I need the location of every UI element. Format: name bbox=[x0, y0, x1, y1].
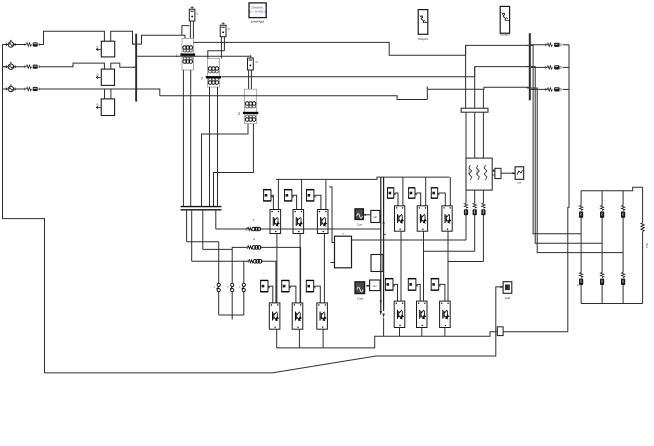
wire phase C long row bbox=[39, 89, 160, 96]
wire M2 jog to transformer2 bbox=[208, 51, 225, 59]
bus bar 2 bbox=[529, 33, 531, 100]
powergui block bbox=[249, 3, 266, 18]
wire junction riser x427 bbox=[426, 87, 428, 100]
igbt RL3 bbox=[440, 301, 451, 327]
wire row2 right bbox=[531, 66, 548, 68]
wire RL1 to rail bbox=[399, 328, 401, 337]
label arrow B3 bbox=[96, 106, 101, 108]
goto block Gd bbox=[503, 282, 512, 294]
svg-text:Scope3: Scope3 bbox=[500, 32, 510, 36]
wire load col3 lower bbox=[622, 285, 624, 304]
gate driver D3 bbox=[306, 190, 315, 201]
wire D2 gate bbox=[293, 195, 297, 209]
wire transformer1 secondary output bbox=[194, 42, 466, 55]
wire RL2 to rail bbox=[421, 328, 423, 337]
wire row3 drop bbox=[482, 89, 484, 108]
wire rail to U3 bbox=[325, 179, 327, 209]
svg-text:B: B bbox=[96, 45, 98, 49]
wire B1 output to bus1 bbox=[111, 31, 136, 44]
wire RU2 to RL2 bbox=[423, 231, 425, 301]
wire D11 gate bbox=[417, 284, 420, 301]
wire transformer2 output row bbox=[222, 76, 475, 78]
scope block Scope3 bbox=[500, 6, 509, 33]
wire load col2 mid bbox=[601, 218, 603, 273]
wire bar drop d bbox=[186, 210, 188, 242]
wire rail to U2 bbox=[301, 179, 303, 209]
gate driver D10 bbox=[385, 279, 394, 291]
wire merged row to bus2 bbox=[427, 87, 529, 89]
wire RL3 to rail bbox=[444, 328, 446, 337]
wire row2 to bus2 bbox=[475, 67, 529, 77]
wire load col1 mid bbox=[580, 218, 582, 273]
load element R2b bbox=[600, 273, 604, 286]
wire B2 output to bus1 bbox=[111, 63, 135, 69]
filter RL C bbox=[481, 203, 485, 215]
gate driver D6 bbox=[306, 280, 315, 291]
series RL branch right C bbox=[546, 87, 561, 91]
wire feeder drop B bbox=[531, 67, 602, 244]
wire RU1 to RL1 bbox=[400, 231, 402, 301]
wire Gd input arrow bbox=[501, 286, 504, 288]
series RL branch right A bbox=[546, 43, 561, 47]
wire bus1 feeder mid bbox=[137, 55, 249, 57]
wire D4 gate bbox=[269, 286, 273, 303]
function block F2 bbox=[370, 280, 381, 291]
svg-text:Gd2: Gd2 bbox=[505, 296, 511, 300]
wire L1 to rail bbox=[276, 329, 278, 348]
wire right branch bottom bbox=[642, 232, 644, 304]
wire load col1 upper bbox=[580, 191, 582, 206]
wire D5 gate bbox=[290, 286, 296, 303]
svg-text:Vabc: Vabc bbox=[468, 169, 471, 175]
wire D8 gate bbox=[416, 193, 421, 206]
label arrow B2 bbox=[96, 76, 101, 78]
three-phase measurement block bbox=[466, 158, 492, 190]
wire load top rail bbox=[581, 187, 643, 190]
scope block Scope4 bbox=[418, 10, 428, 35]
wire F2 input from bus pair bbox=[379, 285, 382, 287]
series RL branch phase B bbox=[25, 65, 39, 69]
load element R1a bbox=[579, 205, 583, 218]
svg-text:Iab: Iab bbox=[518, 182, 522, 185]
wire merge vertical bbox=[568, 45, 569, 332]
wire row1 right bbox=[531, 44, 548, 46]
svg-text:B: B bbox=[96, 73, 98, 77]
wire subsystem input2 stub bbox=[331, 262, 335, 264]
gate driver D11 bbox=[408, 279, 417, 291]
gate driver D8 bbox=[408, 188, 416, 198]
wire D7 gate bbox=[395, 193, 398, 206]
gate driver D7 bbox=[387, 188, 395, 198]
wire phase out A bbox=[352, 239, 467, 241]
wire transformer3 down lead b bbox=[214, 124, 254, 207]
igbt L1 bbox=[269, 303, 280, 329]
label arrow B1 bbox=[96, 48, 101, 50]
load element R1b bbox=[579, 273, 583, 286]
wire row1 to bus2 bbox=[466, 45, 529, 55]
wire U3 to L3 bbox=[323, 234, 325, 303]
wire switch2 drop bbox=[231, 249, 233, 283]
wire M3 down leads bbox=[248, 70, 250, 89]
switch element S3 bbox=[239, 283, 246, 291]
wire F2 to Cos2 arrow bbox=[366, 285, 370, 287]
wire bus pair bottom to rail bbox=[383, 318, 385, 336]
transformer T3 bbox=[238, 89, 258, 124]
wire D6 gate bbox=[315, 286, 320, 303]
wire switch1 drop bbox=[218, 242, 220, 284]
wire M1 to transformer1 bbox=[189, 21, 191, 39]
igbt U2 bbox=[293, 210, 304, 234]
wire bar drop c bbox=[191, 210, 193, 262]
wire phase out C bbox=[448, 261, 483, 263]
breaker block B3 bbox=[101, 99, 114, 116]
wire D10 gate bbox=[394, 284, 397, 301]
ac voltage source Vb bbox=[2, 62, 26, 69]
load element R3b bbox=[621, 273, 625, 286]
ac voltage source Vc bbox=[2, 84, 26, 92]
wire M1 side stub bbox=[182, 26, 189, 36]
wire row3 to merge bbox=[563, 88, 569, 90]
wire transformer3 down lead a bbox=[202, 124, 249, 207]
scope block Cos2 bbox=[355, 282, 364, 294]
wire row1 drop bbox=[465, 45, 467, 108]
wire load col2 upper bbox=[601, 191, 603, 206]
current meter M1 bbox=[189, 6, 195, 21]
wire rail to RU1 bbox=[402, 177, 404, 206]
measurement bar bbox=[461, 108, 488, 112]
wire branch line c bbox=[192, 260, 248, 262]
wire D12 gate bbox=[440, 284, 445, 301]
filter RL A bbox=[464, 203, 468, 215]
wire phase out B bbox=[424, 250, 475, 252]
load element R3a bbox=[621, 205, 625, 218]
wire bar drop b bbox=[202, 210, 204, 250]
switch element S2 bbox=[227, 283, 234, 291]
igbt RL1 bbox=[394, 301, 405, 327]
wire phase A to breaker B1 bbox=[39, 31, 105, 44]
function block F1 bbox=[371, 210, 380, 222]
wire feeder drop A bbox=[531, 45, 581, 233]
wire bar drop a bbox=[215, 210, 217, 229]
wire D9 gate bbox=[439, 193, 445, 206]
svg-text:RL1: RL1 bbox=[645, 243, 649, 249]
series RL branch phase C bbox=[25, 87, 39, 91]
wire left bottom rail bbox=[277, 332, 498, 348]
wire RU3 to RL3 bbox=[447, 231, 449, 301]
wire filters top bbox=[465, 190, 467, 203]
gate driver D4 bbox=[260, 280, 269, 291]
wire rail to RU3 bbox=[449, 177, 451, 206]
inline branch coil a bbox=[247, 227, 261, 231]
wire load col3 mid bbox=[622, 218, 624, 273]
transformer T1 bbox=[175, 39, 195, 71]
wire transformer1 down leads bbox=[182, 70, 184, 207]
wire branch c to lower bridge bbox=[261, 261, 276, 303]
gate driver D1 bbox=[263, 190, 272, 201]
mux block bbox=[371, 255, 383, 272]
wire rail to RU2 bbox=[425, 177, 427, 206]
transformer T2 bbox=[201, 59, 221, 88]
series RL branch phase A bbox=[25, 42, 39, 46]
wire F1 input from bus pair bbox=[379, 216, 382, 218]
wire D1 gate bbox=[272, 195, 273, 209]
igbt U1 bbox=[270, 210, 281, 234]
wire F1 to Cos1 arrow bbox=[363, 214, 371, 216]
svg-text:Scope4: Scope4 bbox=[418, 37, 429, 41]
mux block right of 3ph bbox=[495, 168, 501, 178]
wire D3 gate bbox=[315, 195, 321, 209]
wire U1 to L1 bbox=[276, 234, 278, 303]
subsystem block bbox=[335, 236, 352, 268]
right branch resistor bbox=[641, 223, 644, 231]
igbt RL2 bbox=[417, 301, 428, 327]
svg-text:Ts = 5e-005 s.: Ts = 5e-005 s. bbox=[249, 10, 267, 14]
gate driver D9 bbox=[431, 188, 439, 198]
igbt U3 bbox=[317, 210, 328, 234]
bus pair verticals bbox=[380, 177, 382, 311]
bus bar 1 bbox=[135, 34, 137, 101]
wire filters to phase lines bbox=[465, 215, 467, 240]
wire bus1 to transformer1 primary bbox=[137, 35, 185, 44]
small block SB bbox=[497, 327, 503, 336]
load element R2a bbox=[600, 205, 604, 218]
wire right branch top bbox=[642, 187, 644, 223]
wire row1 to merge bbox=[563, 44, 569, 46]
wire phase B to breaker B2 bbox=[39, 63, 105, 69]
igbt L3 bbox=[317, 303, 328, 329]
wire left return rail and bottom loop bbox=[3, 45, 504, 373]
wire bar to 3ph block bbox=[465, 112, 467, 158]
wire load col2 lower bbox=[601, 285, 603, 304]
igbt RU1 bbox=[395, 206, 405, 231]
wire subsystem input1 feed bbox=[329, 187, 335, 243]
wire feeder drop C bbox=[531, 88, 623, 253]
gate driver D2 bbox=[284, 190, 293, 201]
inline branch coil c bbox=[248, 260, 262, 264]
current meter M3 bbox=[248, 55, 254, 70]
igbt L2 bbox=[292, 303, 303, 329]
svg-text:-: - bbox=[256, 253, 257, 257]
wire U2 to L2 bbox=[299, 234, 301, 303]
wire L3 to rail bbox=[322, 329, 324, 348]
phase link bar bbox=[181, 206, 222, 208]
wire branch line b bbox=[203, 247, 247, 249]
ac voltage source Va bbox=[2, 40, 26, 48]
svg-text:sin: sin bbox=[373, 215, 377, 219]
igbt RU3 bbox=[442, 206, 452, 231]
svg-text:Cos: Cos bbox=[357, 222, 363, 226]
gate driver D12 bbox=[431, 279, 440, 291]
wire converter top rail left bbox=[276, 177, 450, 179]
gate driver D5 bbox=[281, 280, 290, 291]
svg-text:B: B bbox=[96, 103, 98, 107]
svg-text:sin: sin bbox=[373, 284, 377, 288]
wire mux to display bbox=[501, 172, 515, 174]
switch element S1 bbox=[214, 283, 221, 291]
wire M2 down leads bbox=[220, 37, 222, 59]
series RL branch right B bbox=[546, 65, 561, 69]
wire SB to load return bbox=[503, 331, 568, 333]
wire branch a to converter mid bbox=[260, 228, 381, 230]
svg-text:Cos1: Cos1 bbox=[357, 296, 364, 300]
filter RL B bbox=[473, 203, 477, 215]
wire 3ph block side stubs bbox=[492, 170, 496, 178]
wire branch b to lower bridge bbox=[260, 247, 300, 303]
wire load bottom rail bbox=[581, 303, 643, 305]
wire L2 to rail bbox=[298, 329, 300, 348]
current meter M2 bbox=[220, 22, 226, 37]
svg-text:Iabc: Iabc bbox=[476, 170, 479, 176]
wire switch3 drop bbox=[243, 261, 245, 283]
wire B3 pins to phase C row bbox=[104, 89, 106, 99]
breaker block B1 bbox=[101, 41, 114, 57]
wire row3 right bbox=[531, 88, 548, 90]
wire stubs sources to left rail bbox=[3, 66, 9, 68]
scope block Cos1 bbox=[355, 209, 363, 220]
igbt RU2 bbox=[417, 206, 427, 231]
inline branch coil b bbox=[247, 246, 261, 250]
wire transformer2 down leads bbox=[209, 87, 211, 207]
wire phase C over transformer3 bbox=[160, 96, 428, 100]
wire row2 drop bbox=[474, 67, 476, 109]
wire branch line a bbox=[216, 228, 247, 230]
breaker block B2 bbox=[101, 69, 114, 85]
wire load col1 lower bbox=[580, 285, 582, 304]
wire switches to common bbox=[218, 292, 220, 315]
wire load col3 upper bbox=[622, 191, 624, 206]
svg-text:powergui: powergui bbox=[251, 20, 264, 24]
display block bbox=[515, 167, 524, 180]
wire rail to U1 bbox=[277, 179, 279, 209]
wire row2 to merge bbox=[563, 66, 569, 68]
wire switch feed bbox=[187, 241, 219, 243]
